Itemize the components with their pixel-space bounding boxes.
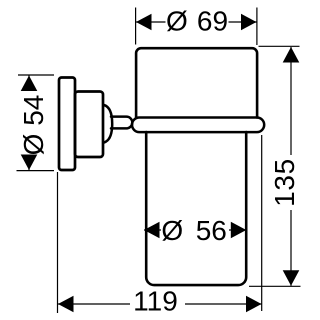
dim Ø69: right extension line bbox=[256, 8, 258, 46]
dim Ø56: dimension line segments bbox=[144, 229, 161, 231]
dim 119: right extension line bbox=[261, 135, 263, 311]
arrowhead 119 left bbox=[58, 296, 74, 313]
dim Ø54: dimension line segments bbox=[28, 76, 30, 91]
dim Ø69: dimension line segments bbox=[136, 21, 166, 23]
tumbler lower section bbox=[146, 132, 246, 285]
arrowhead Ø54 down bbox=[21, 155, 38, 171]
dim 119: dimension line segments bbox=[58, 303, 130, 305]
dim Ø54: bottom extension line bbox=[17, 170, 55, 172]
svg-text:135: 135 bbox=[269, 158, 300, 207]
escutcheon body bbox=[75, 92, 103, 158]
cone dome of bracket bbox=[104, 105, 112, 143]
arrowhead Ø69 right bbox=[241, 14, 257, 31]
dim Ø54: top extension line bbox=[18, 74, 54, 76]
svg-text:119: 119 bbox=[133, 285, 178, 316]
dim 135: dimension line segments bbox=[290, 47, 292, 155]
svg-text:Ø: Ø bbox=[166, 6, 188, 37]
arrowhead Ø54 up bbox=[21, 76, 38, 92]
dim 119: left extension line bbox=[57, 172, 59, 313]
wall plate (side view) bbox=[59, 78, 75, 171]
svg-text:Ø: Ø bbox=[161, 215, 183, 246]
bracket arm with ball end bbox=[111, 117, 132, 129]
tumbler upper section bbox=[136, 48, 257, 117]
arrowhead Ø56 left bbox=[144, 222, 160, 239]
holder ring (capsule) bbox=[132, 118, 264, 133]
arrowhead 135 up bbox=[283, 47, 300, 63]
svg-text:Ø 54: Ø 54 bbox=[18, 95, 49, 156]
arrowhead 135 down bbox=[283, 270, 300, 286]
arrowhead Ø56 right bbox=[231, 222, 247, 239]
arrowhead Ø69 left bbox=[136, 14, 152, 31]
arrowhead 119 right bbox=[246, 296, 262, 313]
svg-text:69: 69 bbox=[197, 6, 228, 37]
dim 135: top extension line bbox=[259, 45, 300, 47]
dim Ø69: left extension line bbox=[135, 8, 137, 45]
svg-text:56: 56 bbox=[196, 215, 227, 246]
dim 135: bottom extension line bbox=[249, 285, 301, 287]
